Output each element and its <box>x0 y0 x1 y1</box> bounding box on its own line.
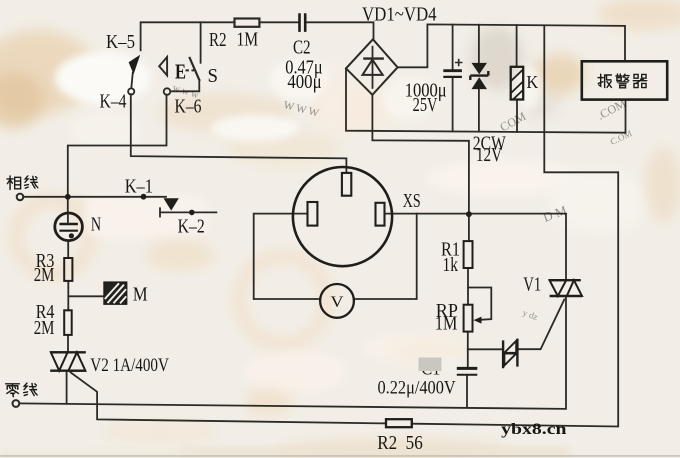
svg-text:K–5: K–5 <box>106 32 135 53</box>
svg-text:K: K <box>526 72 538 92</box>
svg-text:2M: 2M <box>34 265 55 286</box>
svg-text:2M: 2M <box>34 318 55 339</box>
svg-text:400μ: 400μ <box>287 72 321 93</box>
svg-text:R2: R2 <box>209 30 227 51</box>
svg-text:E: E <box>175 60 186 84</box>
svg-text:S: S <box>208 66 219 87</box>
svg-text:VD1~VD4: VD1~VD4 <box>362 4 437 25</box>
svg-text:XS: XS <box>403 191 421 212</box>
svg-text:V: V <box>331 294 344 311</box>
svg-text:25V: 25V <box>413 95 438 116</box>
svg-text:N: N <box>91 215 101 236</box>
svg-text:1k: 1k <box>443 255 459 276</box>
svg-text:V2 1A/400V: V2 1A/400V <box>90 355 169 376</box>
svg-text:ybx8.cn: ybx8.cn <box>501 421 567 438</box>
svg-text:K–2: K–2 <box>178 216 205 237</box>
svg-text:1M: 1M <box>237 30 259 51</box>
svg-text:R2 56: R2 56 <box>377 433 423 454</box>
svg-text:0.22μ/400V: 0.22μ/400V <box>378 378 456 399</box>
svg-text:K–4: K–4 <box>100 92 127 113</box>
svg-text:M: M <box>133 285 148 306</box>
svg-text:K–1: K–1 <box>125 176 153 197</box>
svg-text:C2: C2 <box>293 38 311 59</box>
svg-text:K–6: K–6 <box>175 97 202 118</box>
svg-text:1M: 1M <box>435 314 457 335</box>
svg-text:V1: V1 <box>523 274 541 295</box>
svg-text:12V: 12V <box>476 145 502 166</box>
